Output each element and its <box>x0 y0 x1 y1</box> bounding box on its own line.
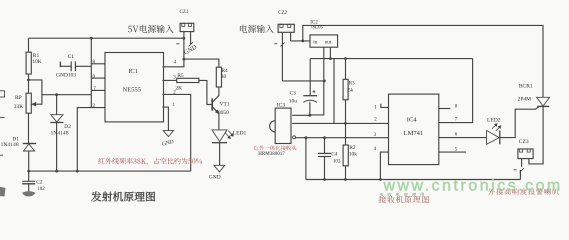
svg-text:www.cntronics.com: www.cntronics.com <box>383 178 563 195</box>
svg-text:103: 103 <box>333 160 341 165</box>
svg-text:in: in <box>313 41 317 46</box>
svg-text:1N4148: 1N4148 <box>1 142 19 148</box>
svg-text:R3: R3 <box>349 81 355 86</box>
svg-text:GND: GND <box>209 174 221 180</box>
svg-text:78L05: 78L05 <box>310 26 324 31</box>
svg-text:C3: C3 <box>290 90 297 96</box>
svg-text:out: out <box>325 41 332 46</box>
svg-text:10K: 10K <box>32 59 42 65</box>
svg-text:5k: 5k <box>348 89 354 94</box>
svg-text:C1: C1 <box>68 54 75 60</box>
svg-text:R1: R1 <box>33 53 40 59</box>
svg-text:C2: C2 <box>36 180 43 186</box>
svg-text:LED1: LED1 <box>233 130 247 136</box>
svg-text:LED2: LED2 <box>487 118 501 124</box>
svg-text:102: 102 <box>37 187 45 192</box>
svg-text:10k: 10k <box>349 152 358 158</box>
svg-text:D2: D2 <box>64 124 71 130</box>
svg-text:GND103: GND103 <box>56 72 76 78</box>
svg-text:CZ1: CZ1 <box>180 10 189 15</box>
svg-text:NE555: NE555 <box>123 87 141 94</box>
svg-text:1N4148: 1N4148 <box>51 131 69 137</box>
svg-text:33K: 33K <box>14 104 23 110</box>
svg-text:2K: 2K <box>175 86 182 92</box>
svg-text:C4: C4 <box>331 151 338 157</box>
svg-text:10u: 10u <box>289 98 298 104</box>
svg-text:2P4M: 2P4M <box>518 97 532 103</box>
svg-text:LM741: LM741 <box>404 130 424 137</box>
svg-text:IC4: IC4 <box>407 117 418 124</box>
svg-text:IC1: IC1 <box>128 68 138 75</box>
svg-text:VT1: VT1 <box>220 101 230 107</box>
svg-text:HRM380017: HRM380017 <box>258 152 285 157</box>
svg-text:8050: 8050 <box>218 110 229 116</box>
svg-text:30: 30 <box>221 74 227 80</box>
svg-text:R2: R2 <box>349 145 356 151</box>
svg-text:RP: RP <box>15 95 22 101</box>
svg-text:IC3: IC3 <box>277 103 286 109</box>
svg-text:CZ2: CZ2 <box>278 11 287 16</box>
svg-text:CZ3: CZ3 <box>519 139 529 145</box>
svg-text:BCR1: BCR1 <box>519 83 533 89</box>
